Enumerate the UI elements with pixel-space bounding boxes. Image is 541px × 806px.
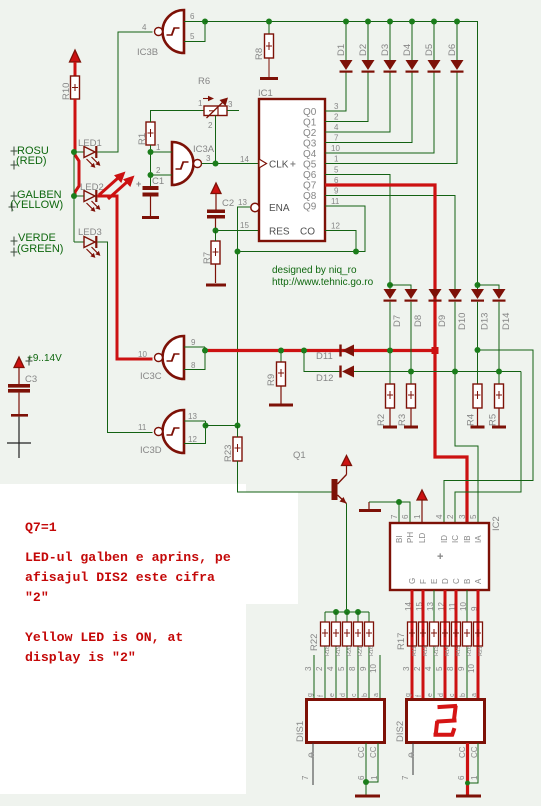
nand gate IC3B (155, 10, 185, 53)
svg-text:4: 4 (424, 666, 433, 671)
power arrow P5 (IC2 LD) (417, 490, 427, 523)
display DIS1 box (307, 700, 385, 743)
svg-text:LED-ul galben e aprins, pe: LED-ul galben e aprins, pe (25, 550, 231, 565)
junction ENA net (235, 249, 241, 255)
display DIS2 box (407, 700, 485, 743)
wire segE lower (433, 646, 435, 699)
svg-text:D7: D7 (392, 315, 403, 327)
wire top rail (205, 22, 478, 286)
svg-text:D4: D4 (402, 44, 413, 56)
svg-text:1: 1 (156, 143, 161, 152)
svg-text:7: 7 (390, 514, 399, 519)
wire Q1 emitter to R22 bus (346, 504, 348, 613)
svg-text:2: 2 (446, 514, 455, 519)
svg-text:13: 13 (238, 198, 247, 207)
svg-text:IC3A: IC3A (193, 144, 215, 155)
svg-text:C1: C1 (152, 176, 164, 187)
svg-text:3: 3 (206, 154, 211, 163)
svg-text:IC1: IC1 (258, 88, 273, 99)
white text area backdrop 2 (198, 492, 298, 604)
wire red lit segment D (444, 590, 447, 699)
wire DIS1 pin a (379, 655, 381, 699)
ground below R4 (471, 426, 485, 429)
white text area backdrop (0, 484, 246, 794)
svg-text:R9: R9 (266, 374, 277, 386)
labels Q0-Q9 (303, 107, 317, 213)
svg-text:8: 8 (446, 666, 455, 671)
svg-text:10: 10 (369, 664, 378, 673)
wire LED3 anode (74, 241, 84, 243)
junction BI stub (396, 499, 402, 505)
wire CO to ENA net (325, 231, 356, 252)
DIS2 CC pins (lit path) (457, 743, 479, 795)
svg-text:7: 7 (401, 775, 410, 780)
svg-text:afisajul DIS2 este cifra: afisajul DIS2 este cifra (25, 570, 215, 585)
wire IC3B pin6 stub (184, 21, 205, 23)
svg-text:B: B (463, 579, 472, 584)
svg-text:d: d (340, 693, 347, 697)
svg-text:e: e (329, 693, 336, 697)
wire segA column (477, 590, 479, 622)
svg-text:1: 1 (334, 155, 339, 164)
svg-text:(RED): (RED) (16, 155, 47, 167)
junction D8/R3 (408, 369, 414, 375)
svg-text:Φ: Φ (308, 751, 314, 760)
wire segG column (411, 590, 413, 622)
pin numbers DIS1 top (304, 664, 378, 673)
wire IC3D pin13 stub (184, 420, 206, 422)
svg-text:2: 2 (156, 166, 161, 175)
svg-text:R13: R13 (434, 646, 440, 656)
label CLK + (269, 160, 296, 171)
nand gate IC3D (155, 410, 185, 453)
wire segE column (433, 590, 435, 699)
svg-text:d: d (438, 693, 445, 697)
junction D2 rail (365, 19, 371, 25)
junction red Q7/IC3C (432, 347, 439, 354)
wire IC3D inputs to R23 (206, 425, 238, 427)
svg-text:Q8: Q8 (303, 191, 317, 202)
svg-text:(GREEN): (GREEN) (17, 243, 63, 255)
svg-text:R21: R21 (358, 646, 364, 656)
svg-text:6: 6 (401, 514, 410, 519)
svg-text:R4: R4 (466, 414, 477, 426)
svg-text:CC: CC (458, 746, 467, 758)
LED3 (84, 236, 100, 258)
svg-text:+: + (290, 160, 296, 171)
junction R23 top (235, 423, 241, 429)
svg-text:R1: R1 (137, 133, 148, 145)
wire D7/D8 anode link (390, 285, 411, 289)
wire IC3D pin12 stub (184, 421, 206, 444)
wire IC3A pin1 (151, 151, 173, 153)
svg-text:IB: IB (463, 535, 472, 543)
svg-text:11: 11 (331, 197, 340, 206)
resistor R9 (277, 351, 286, 404)
svg-text:IC2: IC2 (491, 516, 502, 531)
svg-text:a: a (373, 693, 380, 697)
junction D1 rail (343, 19, 349, 25)
junction IC3B inputs (202, 19, 208, 25)
wire segF column (422, 590, 424, 622)
wire IC3A output to CLK (202, 163, 260, 165)
svg-text:R6: R6 (198, 76, 210, 87)
wire D13/D14 anode link (478, 285, 500, 289)
wire R6 right stub (227, 110, 239, 112)
svg-text:C3: C3 (25, 374, 37, 385)
svg-text:8: 8 (348, 666, 357, 671)
svg-text:IA: IA (474, 535, 483, 543)
ground below R7 (206, 284, 226, 287)
svg-text:b: b (362, 693, 369, 697)
labels IC2 top pins BI PH LD ID IC IB IA (395, 532, 483, 543)
svg-text:Q6: Q6 (303, 170, 317, 181)
ground below R5 (492, 426, 506, 429)
DIS1 dp pin (301, 743, 314, 785)
svg-text:g: g (307, 693, 314, 697)
wire red lit segment F (422, 590, 425, 699)
svg-text:display is "2": display is "2" (25, 650, 136, 665)
svg-text:10: 10 (331, 144, 340, 153)
svg-text:+: + (437, 551, 443, 563)
svg-text:9: 9 (359, 666, 368, 671)
labels R11-R16 tiny (412, 646, 484, 656)
svg-text:RES: RES (269, 227, 290, 238)
diode D1 (340, 22, 353, 73)
svg-text:CC: CC (369, 746, 378, 758)
resistor R5 (495, 384, 504, 426)
svg-text:CC: CC (357, 746, 366, 758)
svg-text:(YELLOW): (YELLOW) (10, 199, 63, 211)
svg-text:a: a (471, 693, 478, 697)
resistor network R22 columns (325, 612, 369, 699)
svg-text:F: F (419, 579, 428, 584)
wire red R10 to LED2 anode (75, 99, 79, 197)
power arrow P4 (Q1 collector) (342, 456, 352, 475)
svg-text:e: e (427, 693, 434, 697)
svg-text:9: 9 (457, 666, 466, 671)
junction CO net (353, 249, 359, 255)
diode D2 (362, 22, 375, 73)
capacitor C1 (136, 179, 159, 216)
svg-text:Q2: Q2 (303, 128, 317, 139)
svg-text:D5: D5 (424, 44, 435, 56)
svg-text:R23: R23 (223, 445, 234, 462)
svg-text:C2: C2 (222, 198, 234, 209)
svg-text:LED2: LED2 (80, 182, 104, 193)
svg-text:4: 4 (142, 23, 147, 32)
svg-text:2: 2 (208, 121, 213, 130)
LED1 (74, 146, 100, 168)
resistor R7 (211, 231, 220, 284)
svg-text:"2": "2" (25, 590, 49, 605)
svg-text:4: 4 (435, 514, 444, 519)
CLK clock triangle (259, 159, 267, 168)
svg-text:+9..14V: +9..14V (27, 353, 62, 364)
svg-text:5: 5 (334, 166, 339, 175)
digit 2 on DIS2 (436, 706, 456, 735)
svg-text:8: 8 (191, 361, 196, 370)
svg-text:1: 1 (413, 514, 422, 519)
svg-text:2: 2 (334, 113, 339, 122)
resistor network R17 bodies (408, 620, 483, 648)
ground below R9 (269, 404, 293, 407)
ground below C1 (142, 216, 159, 219)
svg-text:c: c (351, 693, 358, 697)
junction dot LED1 anode (71, 149, 77, 155)
svg-text:DIS1: DIS1 (295, 721, 306, 742)
wire IC3A pin2 (151, 174, 173, 176)
junction C1/pin2 (148, 172, 154, 178)
svg-text:R15: R15 (456, 646, 462, 656)
diode D8 (405, 289, 418, 384)
wire segment net IA row (354, 371, 521, 373)
junction R8 top (266, 19, 272, 25)
svg-text:R16: R16 (467, 646, 473, 656)
svg-text:G: G (408, 578, 417, 584)
wire net IA jog to IC2 pin5 (455, 372, 478, 524)
earth cross below C3 (7, 417, 31, 458)
diode D13 (471, 285, 484, 384)
pin numbers IC2 top (390, 514, 478, 519)
svg-text:12: 12 (331, 222, 340, 231)
svg-text:D2: D2 (358, 44, 369, 56)
svg-text:4: 4 (326, 666, 335, 671)
junction IC3C inputs (202, 348, 208, 354)
svg-text:R22: R22 (309, 634, 320, 651)
svg-text:Φ: Φ (408, 751, 414, 760)
svg-text:designed by niq_ro: designed by niq_ro (272, 265, 357, 276)
pin numbers IC2 bottom 14 15 13 12 11 10 9 (404, 602, 479, 611)
wire BI/PH to ground (369, 502, 410, 523)
svg-text:3: 3 (228, 100, 233, 109)
svg-text:DIS2: DIS2 (395, 721, 406, 742)
ground below R3 (404, 426, 418, 429)
svg-text:1: 1 (370, 775, 379, 780)
junction DIS2 CC (465, 781, 470, 786)
svg-text:D10: D10 (457, 313, 468, 330)
trimmer R6 (203, 96, 228, 118)
junction DIS1 CC (363, 779, 369, 785)
wire segD column (444, 590, 446, 622)
resistor R10 (71, 76, 80, 99)
DIS1 CC pins (357, 743, 379, 795)
svg-text:b: b (460, 693, 467, 697)
power arrow P1 (supply to R10) (70, 50, 81, 76)
wire Q4 to D5 (325, 73, 434, 154)
wire R23 to Q1 base (238, 461, 332, 492)
svg-text:CC: CC (470, 746, 479, 758)
svg-text:D1: D1 (336, 44, 347, 56)
wire C2/R7 to RES (216, 230, 260, 232)
resistor R4 (473, 384, 482, 426)
svg-text:R14: R14 (445, 646, 451, 656)
svg-text:g: g (405, 693, 412, 697)
wire D12 branch (304, 351, 342, 372)
svg-text:f: f (318, 695, 325, 697)
svg-text:R12: R12 (423, 646, 429, 656)
svg-text:C: C (452, 578, 461, 584)
diode D10 (449, 289, 462, 372)
resistor R3 (407, 384, 416, 426)
junction bus 1 (333, 609, 339, 615)
svg-text:13: 13 (188, 412, 197, 421)
ground below R8 (260, 77, 278, 80)
junction R9 top (278, 348, 284, 354)
svg-text:BI: BI (395, 535, 404, 543)
wire Q1 to D2 (325, 73, 368, 122)
svg-text:E: E (430, 579, 439, 584)
svg-text:15: 15 (240, 221, 249, 230)
svg-text:9: 9 (191, 338, 196, 347)
IC1 4017 counter box (259, 99, 325, 241)
svg-text:5: 5 (469, 514, 478, 519)
svg-text:5: 5 (190, 32, 195, 41)
svg-text:4: 4 (334, 123, 339, 132)
wire LED1 cathode to IC3B output (98, 32, 153, 152)
wire R1 bottom to C1 (150, 145, 152, 186)
svg-text:D: D (441, 578, 450, 584)
resistor R1 (146, 122, 155, 145)
ground below R2 (383, 426, 397, 429)
diode D14 (493, 289, 506, 384)
junction R1/pin1 (148, 149, 154, 155)
svg-text:3: 3 (402, 666, 411, 671)
svg-text:1: 1 (470, 775, 479, 780)
diode D7 (384, 285, 397, 384)
svg-text:LED1: LED1 (78, 138, 102, 149)
svg-text:R8: R8 (254, 48, 265, 60)
junction D4 rail (409, 19, 415, 25)
svg-text:CLK: CLK (269, 160, 289, 171)
svg-text:D6: D6 (447, 44, 458, 56)
junction dot LED2 anode (71, 193, 77, 199)
svg-text:R19: R19 (336, 646, 342, 656)
wire R6 wiper to CLK net (215, 116, 217, 164)
power arrow P3 (supply +9..14V) (14, 357, 24, 384)
R22 bus wire (325, 611, 369, 613)
svg-text:12: 12 (188, 435, 197, 444)
svg-text:6: 6 (190, 12, 195, 21)
junction IC3D inputs (203, 423, 209, 429)
wire red lit segment A (477, 590, 480, 699)
svg-text:10: 10 (138, 350, 147, 359)
LED2 lit emission arrows (red) (99, 172, 135, 200)
svg-text:5: 5 (435, 666, 444, 671)
svg-text:f: f (416, 695, 423, 697)
junction D13 top (475, 282, 481, 288)
wire Q8 to D10 (325, 196, 455, 290)
capacitor C3 (8, 384, 30, 414)
junction D7 column on red net (387, 348, 393, 354)
nand gate IC3A (172, 142, 202, 185)
resistor R23 (233, 426, 242, 462)
svg-text:R2: R2 (376, 414, 387, 426)
junction D12 branch (301, 348, 307, 354)
junction D7 top (387, 282, 393, 288)
svg-text:R7: R7 (202, 252, 213, 264)
svg-text:A: A (474, 578, 483, 584)
svg-text:R18: R18 (325, 646, 331, 656)
ground below DIS1 (355, 795, 380, 798)
IC2 4543 decoder box (390, 523, 489, 590)
svg-text:2: 2 (413, 666, 422, 671)
ENA bubble (251, 203, 259, 211)
wire segC column (455, 590, 457, 622)
svg-text:D13: D13 (480, 313, 491, 330)
diode D5 (428, 22, 441, 73)
svg-text:LD: LD (418, 533, 427, 543)
svg-text:9: 9 (334, 187, 339, 196)
ground below DIS2 (456, 795, 481, 798)
svg-text:Q5: Q5 (303, 160, 317, 171)
svg-text:http://www.tehnic.go.ro: http://www.tehnic.go.ro (272, 277, 374, 288)
svg-text:D14: D14 (501, 313, 512, 330)
wire red lit segment G (411, 590, 414, 699)
wire Q2 to D3 (325, 73, 390, 133)
svg-text:R17: R17 (396, 633, 407, 650)
DIS2 dp pin (401, 743, 414, 780)
svg-text:Q7=1: Q7=1 (25, 520, 57, 535)
svg-text:6: 6 (357, 775, 366, 780)
wire BI stub (398, 502, 400, 523)
labels IC2 bottom pins G F E D C B A (408, 578, 483, 584)
wire red LED2 cathode to IC3C output (98, 196, 153, 359)
svg-text:Q0: Q0 (303, 107, 317, 118)
wire R1 top to R6 (151, 111, 205, 123)
diode D4 (406, 22, 419, 73)
svg-text:ENA: ENA (269, 203, 290, 214)
diode D3 (384, 22, 397, 73)
svg-text:R3: R3 (397, 414, 408, 426)
svg-text:10: 10 (467, 664, 476, 673)
labels R18-R21 tiny (325, 646, 375, 656)
diode D12 (339, 366, 354, 378)
pin numbers DIS2 top (402, 664, 476, 673)
wire Q0 to D1 (325, 73, 346, 112)
svg-text:5: 5 (337, 666, 346, 671)
svg-text:R10: R10 (61, 83, 72, 100)
svg-text:IC3B: IC3B (137, 47, 158, 58)
svg-text:1: 1 (198, 99, 203, 108)
svg-text:D11: D11 (316, 351, 333, 362)
svg-text:ID: ID (440, 535, 449, 543)
wire red Q7 net (325, 185, 467, 522)
text origin crosses (9, 147, 33, 366)
svg-text:Q1: Q1 (293, 450, 306, 461)
diode D6 (451, 22, 464, 73)
wire ENA pin (238, 207, 251, 426)
resistor R8 (265, 22, 274, 78)
resistor R2 (386, 384, 395, 426)
svg-text:Yellow LED is ON, at: Yellow LED is ON, at (25, 630, 183, 645)
svg-text:R16: R16 (369, 646, 375, 656)
junction bus 2 (344, 609, 350, 615)
svg-text:7: 7 (334, 134, 339, 143)
segment letters DIS2 (405, 693, 478, 697)
svg-text:R20: R20 (347, 646, 353, 656)
wire segB lower (466, 646, 468, 699)
svg-text:Q3: Q3 (303, 139, 317, 150)
svg-text:IC3D: IC3D (140, 445, 162, 456)
ground bar below C3 (11, 414, 28, 417)
junction D13/R4 (475, 347, 481, 353)
svg-text:IC3C: IC3C (140, 371, 162, 382)
svg-text:+: + (136, 179, 141, 189)
diode D11 (339, 345, 354, 357)
wire LED anode column (73, 152, 75, 242)
svg-text:3: 3 (458, 514, 467, 519)
